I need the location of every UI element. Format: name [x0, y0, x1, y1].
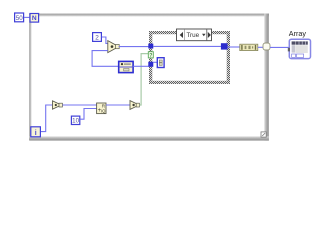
boolean wire equal-zero to case selector	[139, 54, 148, 105]
multiply function (triangle)	[108, 41, 119, 53]
svg-text:True: True	[186, 32, 199, 39]
loop count terminal N	[30, 14, 39, 23]
for loop border	[29, 14, 269, 141]
wire through case (upper)	[153, 45, 221, 47]
increment function (triangle)	[53, 101, 63, 109]
wire loop tunnel to array indicator	[270, 46, 289, 48]
svg-text:50: 50	[16, 15, 23, 22]
constant 10	[71, 116, 79, 125]
wire lower tunnel to indicator inside case	[154, 61, 158, 63]
svg-text:IQ: IQ	[101, 109, 106, 114]
case structure border (hatched)	[149, 31, 230, 84]
array indicator terminal	[288, 39, 311, 58]
loop resize grip bottom-right	[261, 132, 266, 137]
wire multiply to case upper tunnel	[119, 46, 149, 48]
case selector terminal ?	[148, 52, 153, 59]
constant 2	[93, 33, 102, 42]
equal to zero? function (triangle)	[130, 101, 139, 110]
svg-text:?: ?	[149, 53, 152, 59]
case upper-left tunnel	[148, 44, 153, 49]
capsule conversion node	[240, 44, 258, 50]
svg-text:N: N	[32, 15, 37, 22]
wire branch to multiply lower input and slider node	[92, 51, 118, 67]
wire slider node to case lower tunnel	[133, 65, 148, 67]
wire 50 to N	[24, 16, 30, 18]
wire increment to quotient-remainder	[63, 104, 97, 106]
quotient &amp; remainder node	[97, 103, 107, 114]
wire 10 to quotient-remainder	[80, 109, 96, 120]
case lower-left tunnel	[148, 62, 153, 67]
case selector label box	[177, 29, 212, 41]
wire capsule to loop tunnel	[258, 46, 263, 48]
wire quotient-remainder to equal-zero	[106, 104, 130, 106]
loop output tunnel (ring)	[263, 43, 270, 50]
wire case to capsule node	[228, 46, 241, 48]
wire i to increment triangle	[41, 105, 53, 132]
case upper-right tunnel	[221, 43, 228, 49]
iteration terminal i	[31, 127, 41, 137]
wire 2 to multiply	[102, 37, 108, 44]
svg-text:i: i	[35, 130, 37, 137]
constant 50	[15, 13, 24, 22]
svg-text:10: 10	[72, 118, 79, 125]
svg-text:2: 2	[95, 35, 99, 42]
slider terminal node	[119, 61, 133, 72]
small indicator terminal inside case	[157, 58, 164, 68]
svg-text:Array: Array	[289, 29, 307, 38]
